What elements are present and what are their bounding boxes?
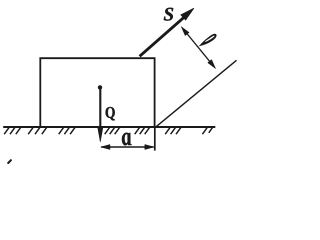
ground hatch group 2 [28,128,46,135]
dimension a left arrowhead [101,145,110,150]
label Q [106,107,115,120]
ground hatch group 7 [202,128,212,135]
inclined line [156,60,237,127]
label S [164,8,173,21]
label l (script ell) [199,34,217,47]
dimension a right arrowhead [145,145,154,150]
force Q application dot [98,85,102,89]
dimension l lower arrowhead [208,60,216,69]
ground hatch group 4 [105,128,120,135]
force Q line [99,89,101,131]
ground hatch group 1 [4,128,20,135]
ground hatch group 5 [135,128,150,135]
label a [122,133,132,146]
force S line [140,15,187,57]
right edge extension below ground [154,127,156,151]
block (rectangle) [40,58,154,127]
force S arrowhead [181,8,194,20]
stray ink mark bottom-left [8,160,11,163]
ground hatch group 6 [165,128,181,135]
ground line [3,126,215,128]
dimension l upper arrowhead [181,27,189,36]
dimension a line [101,146,153,148]
ground hatch group 3 [59,128,75,135]
dimension l line [183,29,214,66]
force Q arrowhead [98,128,103,142]
